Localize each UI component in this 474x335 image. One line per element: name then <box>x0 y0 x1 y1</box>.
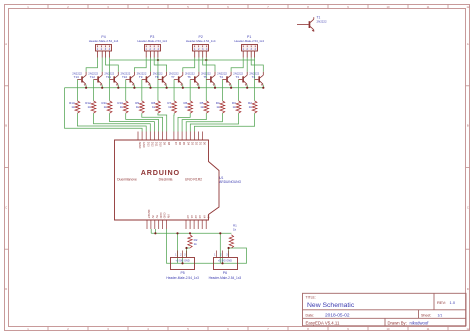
transistor T11 2N2222 <box>104 71 118 85</box>
svg-text:nikodwoof: nikodwoof <box>410 320 430 325</box>
junction <box>185 247 187 249</box>
wire emitter to rail <box>117 85 119 88</box>
svg-text:T7: T7 <box>171 75 175 79</box>
svg-text:11: 11 <box>427 327 430 331</box>
junction <box>181 262 183 264</box>
svg-text:Header-Male-2.54_1x4: Header-Male-2.54_1x4 <box>234 39 264 43</box>
resistor R9 1k <box>135 101 144 113</box>
wire base column T9 <box>141 80 143 101</box>
wire R1 to P6 pin3 <box>229 248 232 257</box>
svg-text:Diecimila: Diecimila <box>159 178 173 182</box>
junction emitter on rail <box>166 87 168 89</box>
svg-text:T12: T12 <box>90 75 96 79</box>
wire base column T5 <box>205 60 207 101</box>
wire emitter to rail <box>85 85 87 88</box>
svg-text:TITLE:: TITLE: <box>306 296 316 300</box>
svg-text:GND: GND <box>163 213 167 219</box>
transistor T2 2N2222 <box>249 71 263 85</box>
svg-text:T6: T6 <box>187 75 191 79</box>
svg-text:Drawn By:: Drawn By: <box>388 320 407 325</box>
svg-text:D5: D5 <box>182 142 186 146</box>
wire P2 pin2 to T6 collector <box>198 58 200 72</box>
wire P3 pin3 to T8 collector <box>154 58 166 72</box>
svg-text:EasyEDA V5.4.11: EasyEDA V5.4.11 <box>306 320 340 325</box>
wire top common rail <box>110 59 255 61</box>
resistor R2 1k <box>188 235 198 248</box>
svg-text:ARDUINO: ARDUINO <box>141 168 180 177</box>
resistor R3 1k <box>232 101 241 113</box>
svg-text:T8: T8 <box>155 75 159 79</box>
wire P1 pin4 down <box>254 58 256 61</box>
svg-text:UNO R1R2: UNO R1R2 <box>185 178 202 182</box>
svg-text:1k: 1k <box>194 242 198 246</box>
resistor R6 1k <box>184 101 193 113</box>
svg-text:D6: D6 <box>178 142 182 146</box>
junction rail P3 <box>157 59 159 61</box>
svg-text:A1: A1 <box>190 215 194 219</box>
svg-text:AREF: AREF <box>138 142 142 149</box>
svg-text:RESET: RESET <box>147 210 151 219</box>
svg-text:T3: T3 <box>236 75 240 79</box>
wire base column T7 <box>173 80 175 101</box>
svg-text:12: 12 <box>467 5 470 9</box>
svg-text:D2: D2 <box>195 142 199 146</box>
junction <box>176 232 178 234</box>
svg-text:D: D <box>467 287 469 291</box>
wire R7 to D7 <box>173 113 175 131</box>
junction R2 top <box>189 232 191 234</box>
wire P2 pin3 to T5 collector <box>203 58 215 72</box>
wire drop to P5 pin1 <box>177 233 179 263</box>
header P2 pin stubs <box>195 51 207 58</box>
junction <box>154 232 156 234</box>
svg-text:D3: D3 <box>190 142 194 146</box>
wire R10 to D10 <box>126 113 159 131</box>
wire emitter to rail <box>150 85 152 88</box>
svg-text:Duemilanove: Duemilanove <box>117 178 137 182</box>
resistor R11 1k <box>102 101 112 113</box>
svg-text:A: A <box>467 42 469 46</box>
svg-text:VIN: VIN <box>167 214 171 218</box>
header P5 Header-Male-2.54_1x3 <box>166 251 199 280</box>
wire P3 pin4 down <box>157 58 159 61</box>
svg-text:A3: A3 <box>198 215 202 219</box>
resistor R4 1k <box>216 101 225 113</box>
module U1 ARDUINO outline <box>115 140 220 220</box>
wire R12 to D12 <box>94 113 151 131</box>
wire R8 to D8 <box>158 113 167 131</box>
svg-text:12: 12 <box>467 327 470 331</box>
wire P3 pin2 to T9 collector <box>150 58 152 72</box>
junction emitter on rail <box>198 87 200 89</box>
header P4 Header-Male-2.54_1x4 <box>89 35 119 51</box>
wire R2 to D2 <box>194 113 254 131</box>
svg-text:Header-Male-2.54_1x4: Header-Male-2.54_1x4 <box>89 39 119 43</box>
svg-text:D7: D7 <box>174 142 178 146</box>
resistor R7 1k <box>167 101 176 113</box>
resistor R12 1k <box>85 101 96 113</box>
svg-text:D1: D1 <box>199 142 203 146</box>
svg-text:1.0: 1.0 <box>450 300 456 305</box>
transistor T3 2N2222 <box>233 71 247 85</box>
svg-text:2018-05-02: 2018-05-02 <box>325 312 350 318</box>
wire P2 pin4 down <box>205 58 207 61</box>
wire VIN loop bottom <box>167 229 247 263</box>
svg-text:GND: GND <box>159 213 163 219</box>
svg-text:Sheet:: Sheet: <box>421 313 431 317</box>
junction <box>228 247 230 249</box>
transistor T7 2N2222 <box>169 71 183 85</box>
wire base column T12 <box>93 80 95 101</box>
wire P5 pin2 stub <box>182 257 184 263</box>
junction emitter on rail <box>117 87 119 89</box>
svg-text:D: D <box>5 287 7 291</box>
svg-text:A5: A5 <box>206 215 210 219</box>
svg-text:+5 SIG GND: +5 SIG GND <box>176 260 190 263</box>
junction emitter on rail <box>262 87 264 89</box>
svg-text:Header-Male-2.54_1x4: Header-Male-2.54_1x4 <box>186 39 216 43</box>
svg-text:P6: P6 <box>223 271 227 275</box>
wire base column T6 <box>189 80 191 101</box>
wire emitter rail <box>65 87 264 89</box>
svg-text:A2: A2 <box>194 215 198 219</box>
transistor T4 2N2222 <box>217 71 231 85</box>
resistor R1 1k <box>229 223 237 248</box>
wire P4 pin1 to T13 collector <box>86 58 97 72</box>
header P3 Header-Male-2.54_1x4 <box>137 35 167 51</box>
svg-text:1/1: 1/1 <box>438 313 443 317</box>
wire emitter to rail <box>246 85 248 88</box>
wire 5V rail bottom <box>151 232 231 234</box>
svg-text:GND: GND <box>142 142 146 148</box>
svg-text:D12: D12 <box>150 142 154 147</box>
wire emitter to rail <box>166 85 168 88</box>
svg-text:Header-Male-2.54_1x3: Header-Male-2.54_1x3 <box>166 276 199 280</box>
svg-text:ARDUINOUNO: ARDUINOUNO <box>219 180 241 184</box>
header P1 pin stubs <box>243 51 254 58</box>
wire P1 pin1 to T4 collector <box>231 58 243 72</box>
ARDUINO top pins <box>138 132 207 150</box>
wire P3 pin1 to T10 collector <box>134 58 146 72</box>
svg-text:D11: D11 <box>155 142 159 147</box>
wire base column T2 <box>254 60 256 101</box>
header P3 pin stubs <box>146 51 158 58</box>
junction emitter on rail <box>85 87 87 89</box>
resistor R5 1k <box>200 101 209 113</box>
header P6 Header-Male-2.54_1x3 <box>209 251 242 280</box>
svg-text:+5 SIG GND: +5 SIG GND <box>218 260 232 263</box>
wire P1 pin3 to T2 collector <box>251 58 263 72</box>
header P4 pin stubs <box>98 51 110 58</box>
svg-text:T2: T2 <box>252 75 256 79</box>
svg-text:A: A <box>5 42 7 46</box>
svg-text:T10: T10 <box>122 75 128 79</box>
svg-text:New Schematic: New Schematic <box>307 302 355 309</box>
svg-text:Date:: Date: <box>306 313 315 317</box>
svg-text:T11: T11 <box>106 75 111 79</box>
transistor T9 2N2222 <box>137 71 151 85</box>
svg-text:A0: A0 <box>186 215 190 219</box>
junction emitter on rail <box>101 87 103 89</box>
svg-text:10: 10 <box>387 5 390 9</box>
svg-text:A4: A4 <box>202 215 206 219</box>
junction <box>219 232 221 234</box>
transistor T6 2N2222 <box>185 71 199 85</box>
wire P1 pin2 to T3 collector <box>246 58 248 72</box>
ARDUINO bottom pins <box>147 210 210 229</box>
transistor T1 2N2222 <box>297 16 327 32</box>
wire emitter rail left drop to GND pin <box>65 88 143 132</box>
transistor T13 2N2222 <box>72 71 86 85</box>
svg-text:T9: T9 <box>139 75 143 79</box>
wire emitter to rail <box>133 85 135 88</box>
wire emitter to rail <box>101 85 103 88</box>
svg-text:1k: 1k <box>233 227 237 231</box>
wire P4 pin4 down <box>109 58 111 61</box>
resistor R10 1k <box>117 101 128 113</box>
wire P4 pin3 to T11 collector <box>106 58 119 72</box>
junction rail P2 <box>205 59 207 61</box>
junction emitter on rail <box>133 87 135 89</box>
wire base column T10 <box>125 80 127 101</box>
wire P2 pin1 to T7 collector <box>183 58 195 72</box>
wire R3 to D3 <box>190 113 238 131</box>
wire base column T8 <box>157 60 159 101</box>
junction emitter on rail <box>246 87 248 89</box>
junction emitter on rail <box>149 87 151 89</box>
wire base column T11 <box>109 60 111 101</box>
svg-text:3V: 3V <box>151 215 155 218</box>
wire emitter to rail <box>198 85 200 88</box>
wire emitter to rail <box>182 85 184 88</box>
wire R4 to D4 <box>186 113 222 131</box>
resistor R2 1k <box>248 101 257 113</box>
svg-text:11: 11 <box>427 5 430 9</box>
junction emitter on rail <box>182 87 184 89</box>
svg-text:D13: D13 <box>146 142 150 147</box>
junction <box>221 262 223 264</box>
wire emitter to rail <box>230 85 232 88</box>
wire R2 to P5 pin3 <box>187 248 191 257</box>
wire R9 to D9 <box>142 113 163 131</box>
header P1 Header-Male-2.54_1x4 <box>234 35 264 51</box>
wire R5 to D5 <box>182 113 206 131</box>
wire R11 to D11 <box>110 113 155 131</box>
svg-text:B: B <box>467 124 469 128</box>
transistor T8 2N2222 <box>153 71 167 85</box>
junction emitter on rail <box>230 87 232 89</box>
svg-text:B: B <box>5 124 7 128</box>
svg-text:Header-Male-2.54_1x4: Header-Male-2.54_1x4 <box>137 39 167 43</box>
wire base column T13 <box>76 80 78 101</box>
resistor R13 1k <box>69 101 80 113</box>
wire base column T4 <box>221 80 223 101</box>
svg-text:P5: P5 <box>180 271 184 275</box>
junction emitter on rail <box>214 87 216 89</box>
title block <box>303 293 467 326</box>
svg-text:Header-Male-2.54_1x3: Header-Male-2.54_1x3 <box>209 276 242 280</box>
header P2 Header-Male-2.54_1x4 <box>186 35 216 51</box>
transistor T5 2N2222 <box>201 71 215 85</box>
svg-text:T4: T4 <box>219 75 223 79</box>
wire P6 pin2 stub <box>222 257 224 263</box>
wire 5V pin drop <box>154 229 156 233</box>
svg-text:C: C <box>467 205 469 209</box>
svg-text:5V: 5V <box>155 215 159 218</box>
svg-text:D4: D4 <box>186 142 190 146</box>
svg-text:REV:: REV: <box>437 300 446 305</box>
svg-text:C: C <box>5 205 7 209</box>
svg-text:2N2222: 2N2222 <box>317 20 328 24</box>
wire emitter to rail <box>214 85 216 88</box>
svg-text:10: 10 <box>387 327 390 331</box>
wire emitter to rail <box>262 85 264 88</box>
svg-text:D9: D9 <box>163 142 167 146</box>
svg-text:D8: D8 <box>167 142 171 146</box>
svg-text:T5: T5 <box>203 75 207 79</box>
wire R13 to D13 <box>77 113 146 131</box>
svg-text:T13: T13 <box>74 75 80 79</box>
svg-text:D0: D0 <box>203 142 207 146</box>
transistor T10 2N2222 <box>121 71 135 85</box>
wire base column T3 <box>238 80 240 101</box>
resistor R8 1k <box>151 101 160 113</box>
wire R6 to D6 <box>178 113 190 131</box>
wire P4 pin2 to T12 collector <box>101 58 103 72</box>
transistor T12 2N2222 <box>88 71 102 85</box>
svg-text:D10: D10 <box>159 142 163 147</box>
wire drop to P6 pin1 <box>219 233 221 263</box>
wire 3V pin drop <box>150 229 152 233</box>
